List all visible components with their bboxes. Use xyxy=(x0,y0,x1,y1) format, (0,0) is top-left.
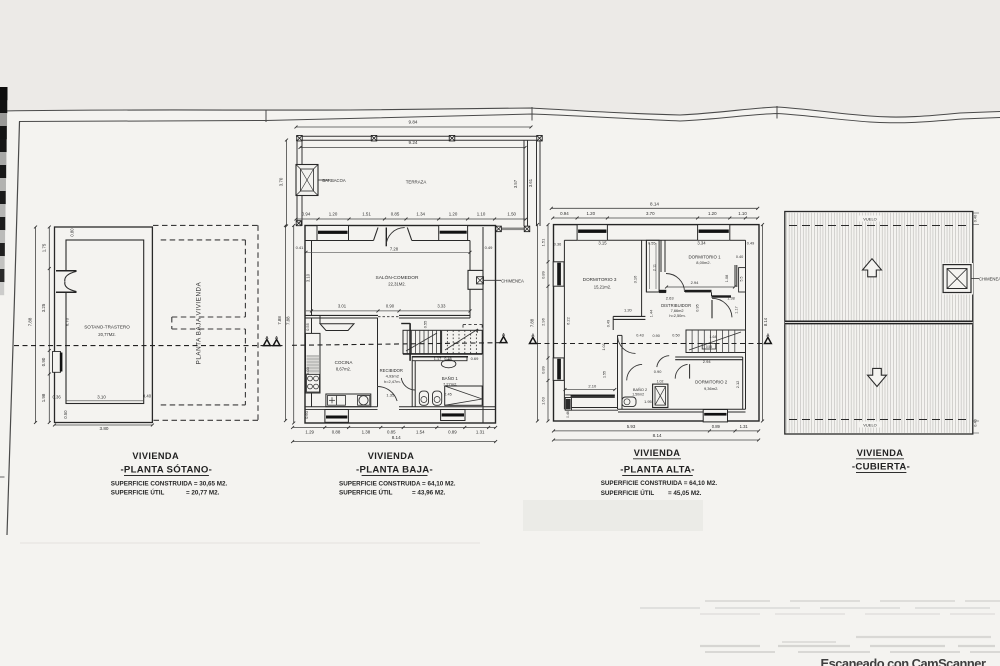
svg-text:7.88: 7.88 xyxy=(28,317,33,326)
svg-text:8,67m2.: 8,67m2. xyxy=(336,367,351,372)
svg-text:0.80: 0.80 xyxy=(70,228,75,237)
svg-text:1.02: 1.02 xyxy=(657,380,664,384)
svg-text:5.93: 5.93 xyxy=(627,424,636,429)
svg-text:RECIBIDOR: RECIBIDOR xyxy=(380,368,403,373)
svg-text:22,31M2.: 22,31M2. xyxy=(388,282,405,287)
svg-text:0.94: 0.94 xyxy=(302,212,311,217)
svg-text:0.46: 0.46 xyxy=(566,411,570,418)
svg-text:1.31: 1.31 xyxy=(476,430,485,435)
svg-text:0.49: 0.49 xyxy=(606,320,610,327)
svg-text:7.88: 7.88 xyxy=(277,316,282,325)
svg-text:TERRAZA: TERRAZA xyxy=(406,180,427,185)
svg-text:2.45: 2.45 xyxy=(444,393,451,397)
svg-text:9,36m2.: 9,36m2. xyxy=(704,386,718,391)
svg-text:3.16: 3.16 xyxy=(633,275,638,284)
svg-text:1.50: 1.50 xyxy=(507,212,516,217)
svg-text:4,93m2: 4,93m2 xyxy=(386,373,400,378)
svg-text:0.50: 0.50 xyxy=(63,410,68,419)
svg-text:0.89: 0.89 xyxy=(541,270,546,279)
svg-text:3.70: 3.70 xyxy=(279,177,284,186)
svg-text:0.36: 0.36 xyxy=(554,243,561,247)
svg-text:SUPERFICIE ÚTIL: SUPERFICIE ÚTIL xyxy=(339,488,393,497)
svg-text:3.10: 3.10 xyxy=(306,273,311,282)
svg-text:1.55: 1.55 xyxy=(602,371,606,378)
svg-text:1.63: 1.63 xyxy=(541,396,546,405)
svg-text:SUPERFICIE CONSTRUIDA = 30,65: SUPERFICIE CONSTRUIDA = 30,65 M2. xyxy=(111,481,228,488)
svg-text:1.10: 1.10 xyxy=(477,212,486,217)
svg-text:0.89: 0.89 xyxy=(712,424,721,429)
svg-text:6.70: 6.70 xyxy=(65,317,70,326)
svg-text:0.90: 0.90 xyxy=(41,357,46,366)
svg-text:= 20,77 M2.: = 20,77 M2. xyxy=(186,490,220,497)
svg-text:CHIMENEA: CHIMENEA xyxy=(979,277,1000,282)
svg-text:0.60: 0.60 xyxy=(304,410,309,419)
svg-text:BAÑO 2: BAÑO 2 xyxy=(633,387,647,392)
svg-text:3.34: 3.34 xyxy=(697,241,706,246)
svg-text:1.02: 1.02 xyxy=(602,344,606,351)
svg-text:20,77M2.: 20,77M2. xyxy=(98,332,115,337)
svg-text:0.89: 0.89 xyxy=(448,430,457,435)
svg-text:0.69: 0.69 xyxy=(471,356,480,361)
svg-text:1.51: 1.51 xyxy=(541,238,546,247)
svg-text:-CUBIERTA-: -CUBIERTA- xyxy=(852,462,910,473)
svg-text:SOTANO-TRASTERO: SOTANO-TRASTERO xyxy=(84,325,130,330)
svg-text:1.38: 1.38 xyxy=(362,430,371,435)
svg-text:1.20: 1.20 xyxy=(624,308,633,313)
svg-text:DORMITORIO 1: DORMITORIO 1 xyxy=(688,255,721,260)
svg-text:0.40: 0.40 xyxy=(143,394,152,399)
svg-text:0.55: 0.55 xyxy=(706,345,712,349)
svg-text:1.20: 1.20 xyxy=(708,211,717,216)
svg-text:COCINA: COCINA xyxy=(335,360,354,365)
svg-text:1.54: 1.54 xyxy=(416,430,425,435)
svg-text:0.55: 0.55 xyxy=(305,322,310,331)
svg-text:1.95: 1.95 xyxy=(644,399,652,404)
svg-text:2.96: 2.96 xyxy=(541,317,546,326)
svg-text:3.03: 3.03 xyxy=(305,366,310,375)
svg-text:0.90: 0.90 xyxy=(386,304,395,309)
svg-text:1.17: 1.17 xyxy=(434,357,441,361)
svg-text:1.75: 1.75 xyxy=(42,243,47,252)
svg-text:0.49: 0.49 xyxy=(485,245,494,250)
svg-text:2.10: 2.10 xyxy=(588,383,597,388)
svg-text:3.15: 3.15 xyxy=(598,241,607,246)
svg-text:0.95: 0.95 xyxy=(696,304,700,311)
svg-text:-PLANTA ALTA-: -PLANTA ALTA- xyxy=(620,465,695,476)
svg-text:1,50m2: 1,50m2 xyxy=(632,392,644,396)
svg-text:-PLANTA BAJA-: -PLANTA BAJA- xyxy=(356,465,433,476)
svg-text:BARBACOA: BARBACOA xyxy=(322,178,345,183)
svg-text:= 43,96 M2.: = 43,96 M2. xyxy=(412,490,446,497)
svg-text:3.25: 3.25 xyxy=(41,303,46,312)
svg-text:3.61: 3.61 xyxy=(528,178,533,187)
svg-text:1.34: 1.34 xyxy=(416,212,425,217)
svg-text:VIVIENDA: VIVIENDA xyxy=(857,448,904,458)
svg-text:0.40: 0.40 xyxy=(974,215,978,222)
svg-text:3.10: 3.10 xyxy=(97,395,106,400)
svg-text:2.63: 2.63 xyxy=(666,296,675,301)
svg-text:1.20: 1.20 xyxy=(449,212,458,217)
svg-text:0.90: 0.90 xyxy=(654,369,662,374)
svg-text:3.01: 3.01 xyxy=(338,304,347,309)
svg-text:0.36: 0.36 xyxy=(53,395,62,400)
svg-text:2.11: 2.11 xyxy=(653,264,657,271)
svg-text:0.85: 0.85 xyxy=(391,212,400,217)
svg-text:1.20: 1.20 xyxy=(587,211,596,216)
svg-text:9.84: 9.84 xyxy=(409,120,418,125)
svg-text:= 45,05 M2.: = 45,05 M2. xyxy=(668,490,702,497)
svg-text:0.55: 0.55 xyxy=(648,242,655,246)
svg-text:h=2,47m.: h=2,47m. xyxy=(384,379,401,384)
svg-text:Escaneado con CamScanner: Escaneado con CamScanner xyxy=(821,656,986,666)
svg-text:SUPERFICIE ÚTIL: SUPERFICIE ÚTIL xyxy=(601,488,655,497)
svg-text:BAÑO 1: BAÑO 1 xyxy=(442,376,459,381)
svg-text:0.46: 0.46 xyxy=(444,357,451,361)
svg-text:8.14: 8.14 xyxy=(763,317,768,326)
svg-text:7.28: 7.28 xyxy=(390,247,399,252)
svg-text:1.44: 1.44 xyxy=(649,310,653,317)
svg-text:VIVIENDA: VIVIENDA xyxy=(132,451,179,461)
svg-text:5.5: 5.5 xyxy=(740,277,744,282)
svg-text:8.14: 8.14 xyxy=(653,433,662,438)
svg-text:1.51: 1.51 xyxy=(362,212,371,217)
svg-text:0.55: 0.55 xyxy=(424,321,428,328)
svg-text:8.14: 8.14 xyxy=(392,435,401,440)
svg-text:8,00m2.: 8,00m2. xyxy=(696,260,710,265)
svg-text:8.14: 8.14 xyxy=(650,201,659,206)
svg-text:7.88: 7.88 xyxy=(530,318,535,327)
svg-text:0.85: 0.85 xyxy=(387,430,396,435)
svg-text:0.89: 0.89 xyxy=(541,365,546,374)
svg-text:DORMITORIO 2: DORMITORIO 2 xyxy=(695,380,728,385)
svg-text:1.29: 1.29 xyxy=(305,430,314,435)
svg-text:3.70: 3.70 xyxy=(646,211,655,216)
svg-text:2.12: 2.12 xyxy=(735,381,740,389)
svg-text:1.98: 1.98 xyxy=(41,393,46,402)
svg-text:SUPERFICIE CONSTRUIDA = 64,10: SUPERFICIE CONSTRUIDA = 64,10 M2. xyxy=(339,481,456,488)
svg-text:2.94: 2.94 xyxy=(703,359,712,364)
svg-text:VIVIENDA: VIVIENDA xyxy=(634,448,681,458)
svg-text:VUELO: VUELO xyxy=(863,423,877,428)
svg-text:0.94: 0.94 xyxy=(560,211,569,216)
svg-text:0.43: 0.43 xyxy=(636,334,643,338)
svg-text:15,21m2.: 15,21m2. xyxy=(594,285,611,290)
svg-text:9.24: 9.24 xyxy=(409,140,418,145)
svg-text:0.41: 0.41 xyxy=(296,245,305,250)
svg-text:1.35: 1.35 xyxy=(386,393,395,398)
svg-text:0.49: 0.49 xyxy=(747,242,754,246)
svg-text:0.88: 0.88 xyxy=(332,430,341,435)
svg-text:3.33: 3.33 xyxy=(437,304,446,309)
svg-text:1.64: 1.64 xyxy=(710,335,717,339)
svg-text:PLANTA BAJA VIVIENDA: PLANTA BAJA VIVIENDA xyxy=(196,281,203,364)
svg-text:DORMITORIO 3: DORMITORIO 3 xyxy=(583,277,617,282)
svg-text:2.94: 2.94 xyxy=(691,280,700,285)
svg-text:1.20: 1.20 xyxy=(329,212,338,217)
svg-text:VUELO: VUELO xyxy=(863,217,877,222)
svg-text:CHIMENEA: CHIMENEA xyxy=(501,278,524,283)
svg-text:0.40: 0.40 xyxy=(974,419,978,426)
svg-text:0.50: 0.50 xyxy=(672,334,679,338)
svg-text:0.90: 0.90 xyxy=(653,334,660,338)
svg-text:h=2,50m.: h=2,50m. xyxy=(669,313,685,318)
svg-text:-PLANTA SÓTANO-: -PLANTA SÓTANO- xyxy=(120,464,212,476)
svg-text:SUPERFICIE CONSTRUIDA = 64,10: SUPERFICIE CONSTRUIDA = 64,10 M2. xyxy=(601,480,718,487)
svg-text:7.88: 7.88 xyxy=(286,316,291,325)
svg-text:SUPERFICIE ÚTIL: SUPERFICIE ÚTIL xyxy=(111,488,165,497)
svg-text:1.31: 1.31 xyxy=(740,424,749,429)
svg-text:1.10: 1.10 xyxy=(738,211,747,216)
svg-text:1.38: 1.38 xyxy=(727,297,734,301)
svg-text:3.57: 3.57 xyxy=(513,179,518,188)
svg-text:SALÓN-COMEDOR: SALÓN-COMEDOR xyxy=(376,274,419,281)
svg-text:1.17: 1.17 xyxy=(735,306,739,313)
svg-text:6.22: 6.22 xyxy=(566,316,571,325)
svg-text:3.80: 3.80 xyxy=(100,426,109,431)
svg-text:0.40: 0.40 xyxy=(736,255,743,259)
svg-text:1.08: 1.08 xyxy=(725,275,729,282)
svg-text:VIVIENDA: VIVIENDA xyxy=(368,451,415,461)
